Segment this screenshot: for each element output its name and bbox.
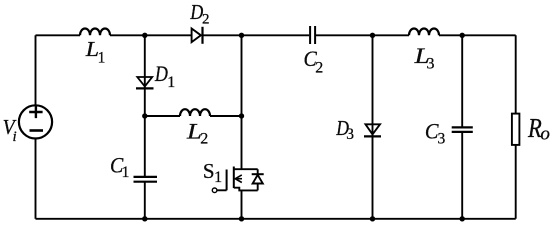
svg-text:2: 2 (200, 130, 208, 147)
svg-text:D: D (154, 61, 168, 86)
svg-text:3: 3 (438, 130, 446, 147)
svg-text:o: o (540, 123, 550, 144)
svg-text:1: 1 (214, 169, 222, 186)
svg-text:3: 3 (427, 55, 435, 72)
svg-text:1: 1 (98, 49, 106, 66)
svg-text:i: i (13, 129, 17, 145)
svg-text:1: 1 (122, 164, 130, 181)
svg-text:1: 1 (167, 74, 175, 91)
svg-text:2: 2 (315, 59, 323, 76)
svg-text:2: 2 (202, 12, 210, 28)
svg-text:3: 3 (346, 126, 354, 143)
svg-text:S: S (203, 159, 215, 183)
